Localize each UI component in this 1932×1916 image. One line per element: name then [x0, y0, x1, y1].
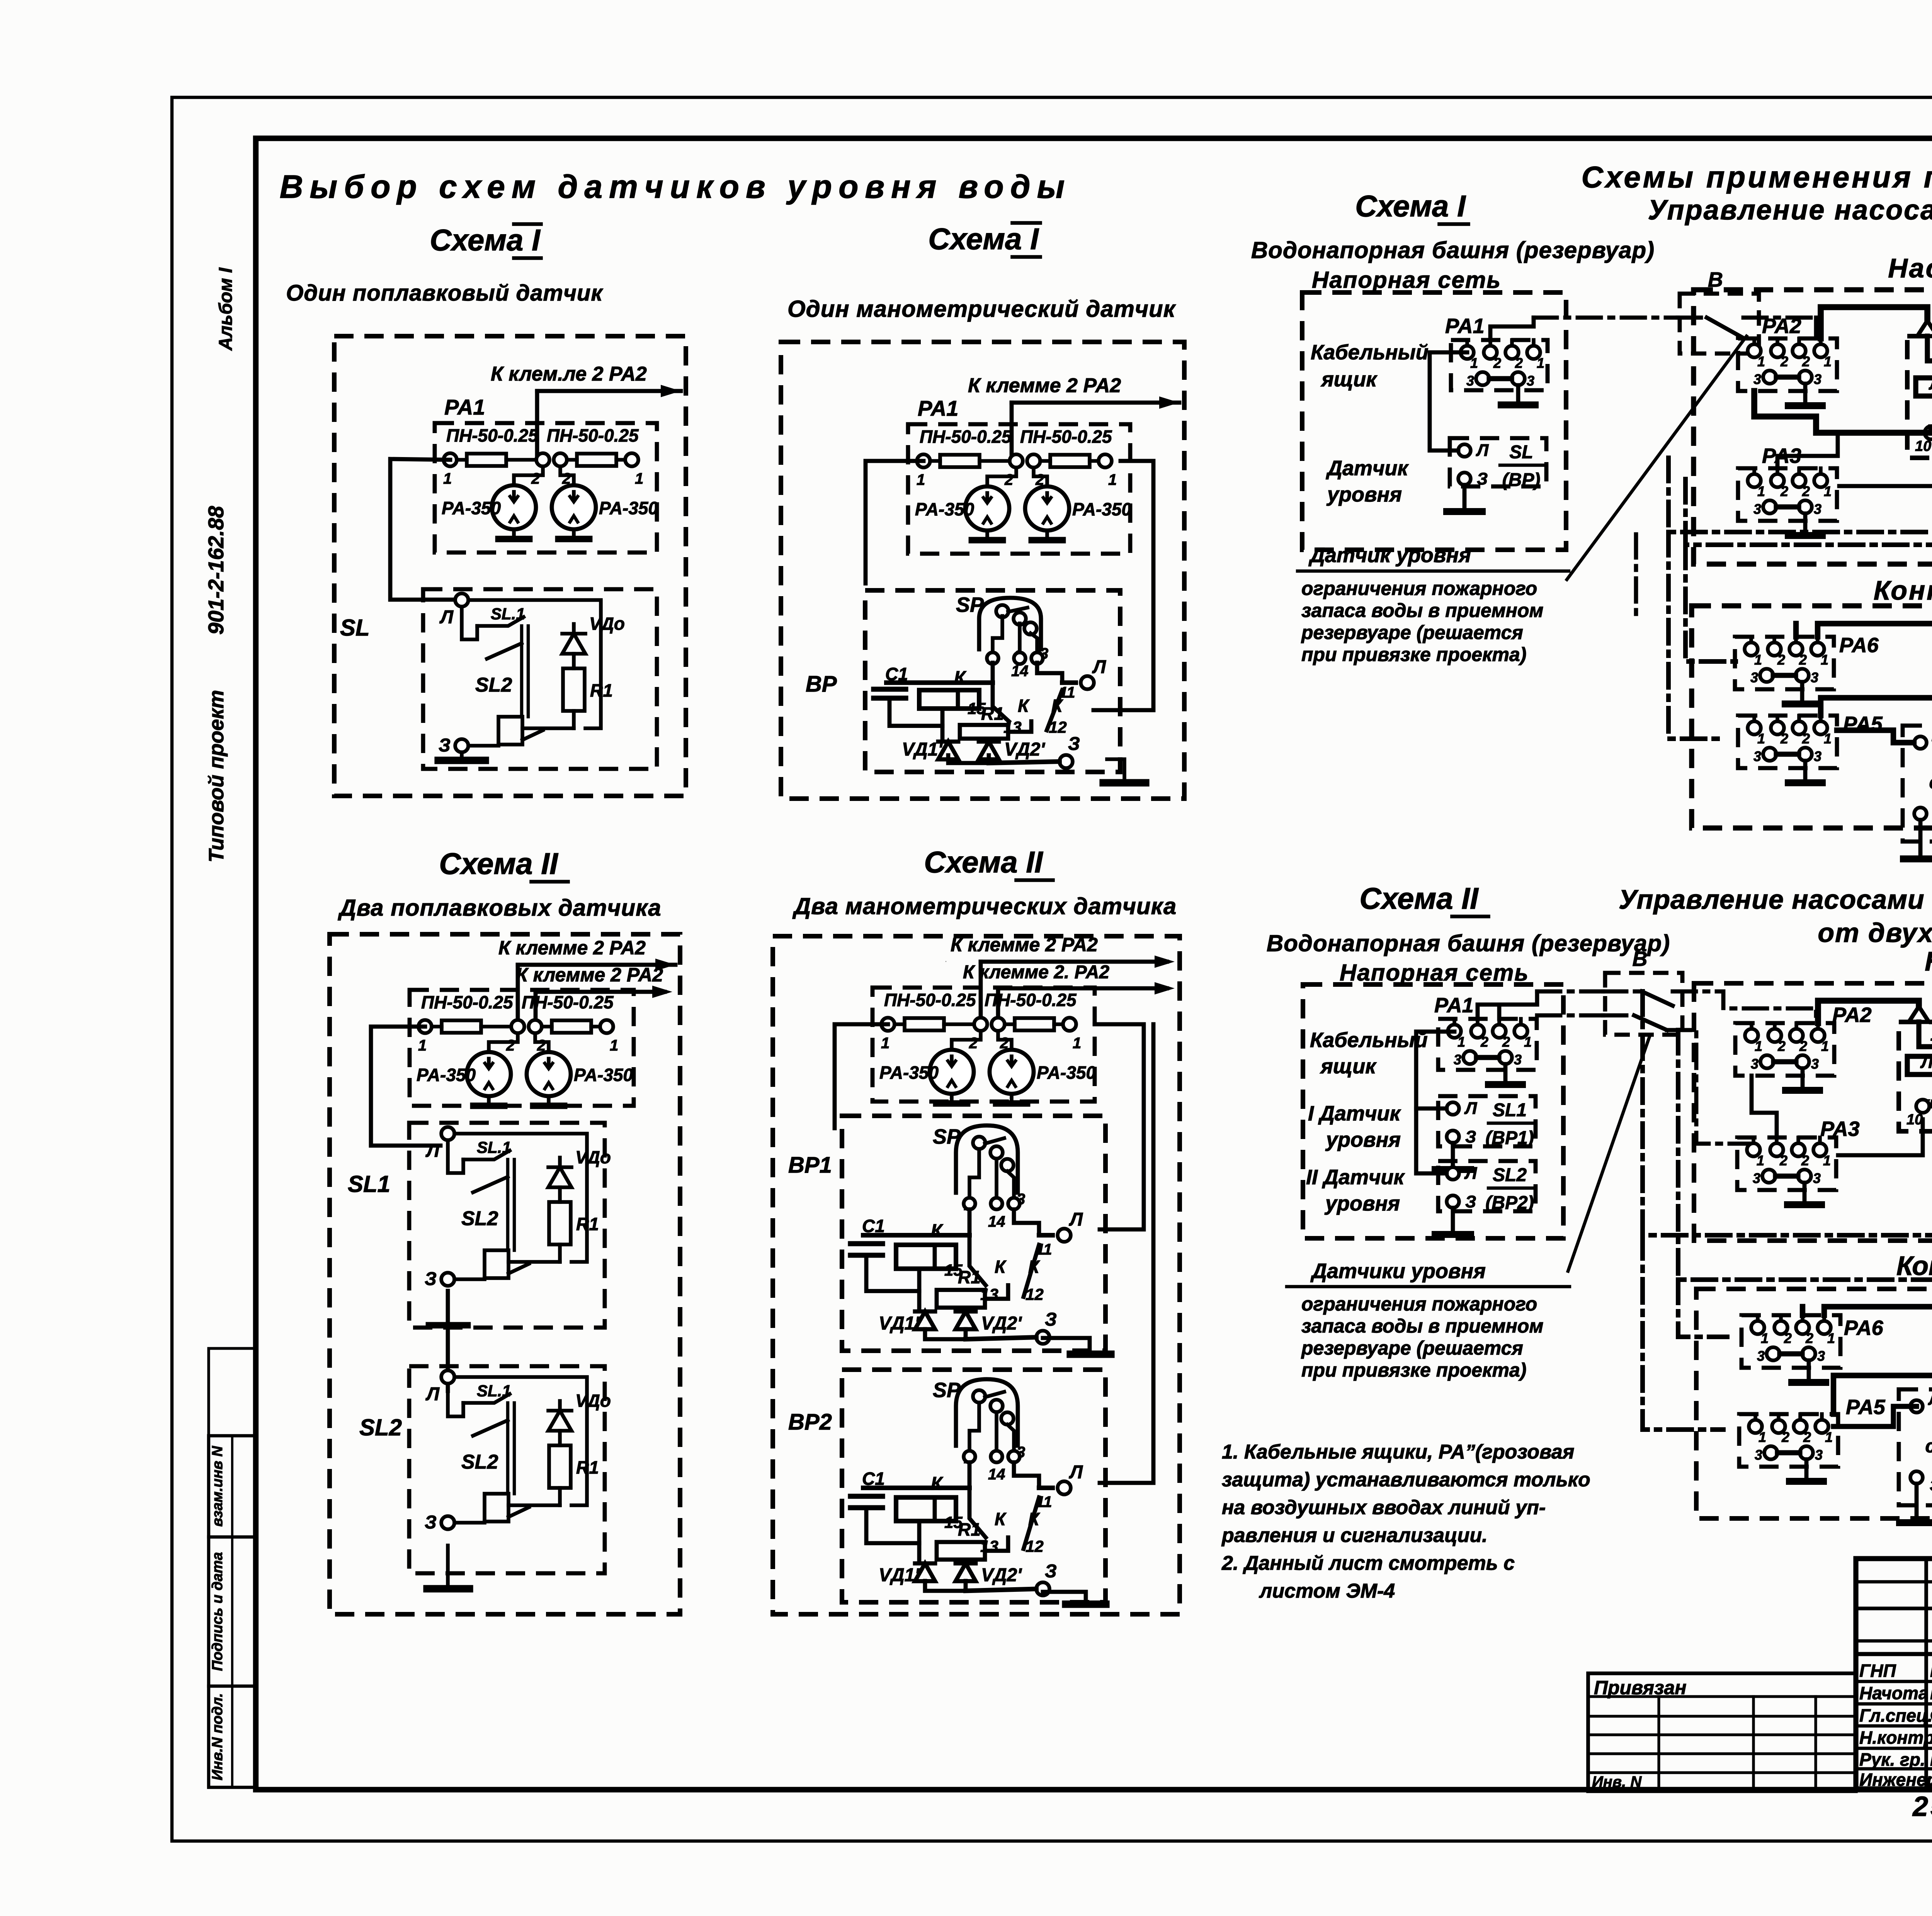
ground lead	[1918, 820, 1923, 859]
pump station dashed box I	[1694, 290, 1932, 564]
svg-text:К: К	[1028, 1257, 1040, 1277]
wire L line	[886, 680, 993, 685]
svg-text:равления и сигнализации.: равления и сигнализации.	[1221, 1524, 1488, 1547]
svg-text:РА-350: РА-350	[574, 1065, 633, 1085]
SP contact c	[1001, 1412, 1014, 1425]
svg-text:Инв.N подл.: Инв.N подл.	[209, 1693, 226, 1780]
svg-text:взам.инв N: взам.инв N	[209, 1445, 226, 1527]
svg-text:РА2: РА2	[1762, 315, 1801, 338]
wire L line	[863, 1233, 969, 1238]
svg-text:ящик: ящик	[1320, 368, 1378, 391]
switch blade middle	[487, 643, 522, 659]
float guide rods	[506, 1403, 509, 1494]
terminal 2a	[1471, 1025, 1484, 1038]
svg-text:2: 2	[1779, 1153, 1787, 1168]
terminal 2a	[1771, 721, 1784, 734]
wire L line	[863, 1486, 969, 1490]
svg-text:Альбом I: Альбом I	[216, 267, 236, 351]
svg-text:3: 3	[1750, 670, 1758, 685]
svg-text:R1: R1	[576, 1457, 599, 1477]
svg-text:К: К	[931, 1474, 944, 1494]
svg-text:К: К	[954, 668, 967, 689]
svg-text:З: З	[1045, 1561, 1057, 1581]
inner frame wire	[454, 1134, 587, 1262]
wire right bus to L	[1094, 461, 1153, 710]
terminal L	[441, 1370, 454, 1384]
svg-text:SL1: SL1	[1493, 1100, 1527, 1120]
svg-text:2: 2	[1780, 731, 1788, 746]
svg-text:при привязке проекта): при привязке проекта)	[1301, 644, 1526, 665]
terminal 1a	[1745, 1029, 1758, 1042]
wire Z link 2	[1043, 1592, 1086, 1603]
svg-text:Бурыгин: Бурыгин	[1930, 1749, 1932, 1770]
wire L to switch	[447, 1173, 448, 1273]
svg-text:VДо: VДо	[575, 1391, 611, 1411]
svg-text:З: З	[1477, 469, 1488, 488]
wire trunk YaS L	[1821, 698, 1932, 743]
ground meter right	[572, 529, 576, 539]
wire PA6 trunk to 4-YaS II	[1824, 1307, 1932, 1406]
svg-text:R1: R1	[576, 1214, 599, 1234]
resistor R1	[563, 668, 585, 711]
entry stubs	[1750, 1023, 1753, 1029]
SP pin circles	[964, 1451, 975, 1462]
terminal 1a	[1448, 1025, 1461, 1038]
manometric sensor box ВР	[865, 590, 1120, 772]
svg-text:на воздушных вводах линий уп-: на воздушных вводах линий уп-	[1222, 1496, 1546, 1519]
ground lead	[1803, 1183, 1807, 1205]
wire drop 1	[979, 962, 983, 1021]
diode VD1'	[938, 741, 958, 759]
svg-text:Начота: Начота	[1859, 1683, 1928, 1703]
terminal Z	[1910, 1471, 1923, 1484]
svg-text:1: 1	[1761, 1330, 1769, 1346]
SP contact c	[1001, 1159, 1014, 1171]
terminal Z	[441, 1516, 454, 1529]
svg-text:Рук. гр.: Рук. гр.	[1859, 1749, 1925, 1770]
svg-text:R1: R1	[958, 1519, 981, 1539]
ammeter PA-350 right	[990, 1050, 1034, 1094]
wire drop to PA2	[1814, 318, 1818, 338]
dash-dot down to kontrolny II a	[1643, 1235, 1723, 1430]
terminal 2b	[1794, 1420, 1807, 1433]
arrester box	[872, 988, 1095, 1102]
SP contact a	[996, 605, 1009, 617]
svg-text:2: 2	[1780, 483, 1788, 499]
float sensor box SL1	[409, 1123, 605, 1328]
ammeter PA-350 left	[467, 1052, 511, 1096]
terminal Z	[1036, 1582, 1049, 1595]
dash-dot napor lower to B II	[1537, 1013, 1603, 1018]
svg-text:К: К	[995, 1257, 1007, 1277]
svg-text:3: 3	[1466, 373, 1474, 389]
svg-text:2: 2	[1802, 731, 1810, 746]
wire YaU10 run	[1839, 434, 1932, 486]
diagonal callout line I	[1567, 336, 1747, 580]
level sensor box SL	[1450, 438, 1546, 486]
title block columns	[1924, 1559, 1928, 1789]
svg-text:К: К	[1028, 1509, 1040, 1529]
dash-dot trunk down left 1	[1668, 532, 1723, 739]
svg-text:Схема I: Схема I	[430, 223, 541, 257]
terminal 1b	[1814, 474, 1827, 487]
ground mid	[1070, 1350, 1111, 1358]
svg-text:Гл.спец.: Гл.спец.	[1859, 1705, 1932, 1726]
wire L1	[1927, 336, 1932, 361]
wire drop 2	[534, 992, 538, 1023]
relay K blade 15-13	[993, 683, 1009, 721]
wire PA1 to SL1 SL2	[1416, 1032, 1454, 1173]
terminal 3a	[1763, 371, 1776, 384]
svg-text:2: 2	[1801, 1153, 1809, 1168]
terminal 3b	[1799, 371, 1812, 384]
relay K blade 12	[1024, 1245, 1039, 1297]
terminal 1a	[1748, 474, 1761, 487]
switch blade	[1603, 989, 1642, 994]
fuse F2	[552, 1020, 591, 1033]
svg-text:Л: Л	[425, 1384, 440, 1404]
SP contact c	[1024, 622, 1037, 635]
svg-text:Управление насосами от одного: Управление насосами от одного датчика ур…	[1648, 195, 1932, 226]
terminal 1a	[1751, 1321, 1764, 1334]
wire 1-YaU 10 to PA3	[1777, 434, 1931, 468]
diode VDo	[562, 634, 585, 654]
ground lead	[1516, 385, 1520, 405]
svg-text:Два манометрических датчика: Два манометрических датчика	[792, 893, 1177, 919]
terminal box РА3	[1738, 468, 1837, 521]
terminal 1 right	[1099, 454, 1112, 468]
svg-text:3: 3	[1753, 1170, 1760, 1186]
ground lead	[1915, 1484, 1919, 1523]
title block main frame	[1856, 1559, 1932, 1789]
jumper 3-3	[1476, 1055, 1499, 1060]
svg-text:Два поплавковых датчика: Два поплавковых датчика	[337, 895, 661, 921]
svg-text:12: 12	[1026, 1285, 1044, 1303]
svg-text:Насосная станция: Насосная станция	[1888, 253, 1932, 283]
SP contact b	[990, 1146, 1003, 1159]
terminal 3b	[1796, 669, 1809, 682]
svg-text:С1: С1	[862, 1216, 885, 1236]
svg-text:Напорная сеть: Напорная сеть	[1312, 267, 1501, 293]
klemme arrow 2	[998, 986, 1167, 991]
svg-text:(ВР1): (ВР1)	[1485, 1128, 1534, 1148]
svg-text:2: 2	[1803, 1429, 1811, 1445]
svg-text:Инженер: Инженер	[1859, 1770, 1932, 1790]
wire right bus to BP2	[1100, 1229, 1144, 1483]
svg-text:2: 2	[531, 470, 540, 487]
svg-text:ограничения пожарного: ограничения пожарного	[1301, 1293, 1537, 1315]
svg-text:2: 2	[1805, 1330, 1813, 1346]
wire meter right	[535, 1033, 549, 1052]
svg-text:Датчики уровня: Датчики уровня	[1310, 1260, 1486, 1283]
float guide rods	[520, 626, 523, 717]
svg-text:ПН-50-0.25: ПН-50-0.25	[446, 425, 539, 445]
svg-text:1: 1	[635, 470, 643, 487]
svg-text:Схема II: Схема II	[439, 847, 558, 881]
terminal box РА1	[1451, 340, 1548, 390]
wire PA6 second riser	[1793, 624, 1799, 637]
svg-text:РА6: РА6	[1844, 1316, 1884, 1340]
jumper 3-3	[1776, 1173, 1798, 1178]
klemme arrow 1	[1002, 961, 1003, 962]
wire to PA2 with arrow	[518, 963, 675, 967]
ground meter left	[985, 530, 989, 540]
svg-text:SL2: SL2	[1493, 1165, 1527, 1185]
wire L to switch	[447, 1416, 448, 1516]
wire meter left	[514, 466, 543, 485]
svg-text:1: 1	[1757, 483, 1765, 499]
svg-text:1: 1	[1824, 483, 1832, 499]
diode VD2'	[979, 741, 999, 759]
svg-text:ПН-50-0.25: ПН-50-0.25	[884, 990, 976, 1010]
svg-text:14: 14	[1011, 663, 1029, 680]
svg-text:Н.контр: Н.контр	[1859, 1727, 1932, 1748]
svg-text:РА2: РА2	[1832, 1003, 1872, 1027]
svg-text:Кабельный: Кабельный	[1310, 1029, 1428, 1052]
dash-dot down to kontrolny II b	[1678, 1280, 1727, 1337]
resistor R1	[549, 1445, 571, 1488]
terminal box РА2	[1735, 1023, 1834, 1076]
inner frame wire	[468, 600, 601, 728]
terminal L	[1081, 676, 1094, 689]
svg-text:2: 2	[1781, 1429, 1789, 1445]
svg-text:К клемме 2. РА2: К клемме 2. РА2	[963, 962, 1109, 983]
float guide rods	[506, 1159, 509, 1250]
svg-text:К: К	[1051, 695, 1063, 716]
svg-text:сигнали-: сигнали-	[1925, 1436, 1932, 1457]
terminal 3a	[1763, 748, 1776, 761]
svg-text:3: 3	[1527, 373, 1534, 389]
control cell 1-ЯУ	[1907, 336, 1932, 458]
svg-text:Л: Л	[439, 607, 454, 627]
wire right bus 2	[1105, 1132, 1144, 1132]
svg-text:25548-01 23: 25548-01 23	[1912, 1791, 1932, 1822]
svg-text:от двух датчиков уровня.: от двух датчиков уровня.	[1818, 918, 1932, 948]
terminal 2b	[1790, 1029, 1803, 1042]
svg-text:Схема II: Схема II	[1359, 881, 1479, 915]
svg-text:Л: Л	[425, 1141, 440, 1161]
terminal box РА1	[1438, 1019, 1537, 1070]
svg-text:2: 2	[1799, 1038, 1807, 1054]
wire PA1 second entry	[1497, 1008, 1502, 1019]
svg-text:резервуаре (решается: резервуаре (решается	[1301, 1337, 1523, 1359]
jumper 3-3	[1773, 673, 1796, 678]
jumper 3-3	[1774, 1059, 1796, 1064]
svg-text:1: 1	[1757, 354, 1765, 369]
diode VDo	[548, 1411, 571, 1431]
svg-text:1: 1	[1757, 1153, 1764, 1168]
svg-text:Москалец: Москалец	[1930, 1683, 1932, 1703]
ammeter PA-350 right	[1025, 486, 1069, 530]
ground lead	[1803, 761, 1808, 783]
svg-text:3: 3	[1813, 1170, 1821, 1186]
svg-text:2: 2	[1802, 354, 1810, 369]
terminal 1a	[1749, 1420, 1762, 1433]
wire meter left	[987, 468, 1016, 486]
fuse F2	[577, 454, 616, 466]
svg-text:З: З	[1930, 1477, 1932, 1494]
terminal 2b	[1796, 1321, 1809, 1334]
wire left bus	[835, 1024, 888, 1128]
terminal Z	[455, 739, 468, 752]
dash-dot trunk vertical 1	[1668, 458, 1932, 532]
manometric sensor box ВР1	[842, 1116, 1105, 1351]
diode VD1'	[915, 1563, 935, 1581]
wire PA1 top entry	[1490, 318, 1534, 340]
dash-dot trunk vertical 2	[1685, 479, 1932, 545]
control point dashed box II	[1696, 1289, 1932, 1518]
terminal 1b	[1813, 1143, 1827, 1156]
wire C1-K	[866, 1508, 919, 1543]
switch blade middle	[473, 1177, 508, 1192]
wire PA6 trunk to 4-YaS	[1818, 624, 1932, 743]
ammeter PA-350 right	[552, 485, 596, 529]
terminal 2 left	[974, 1018, 987, 1031]
svg-text:2: 2	[1493, 355, 1501, 371]
svg-text:В: В	[1633, 947, 1648, 971]
wire arrow drop to PA1	[1010, 403, 1014, 460]
svg-text:листом ЭМ-4: листом ЭМ-4	[1259, 1580, 1395, 1602]
terminal 2 left	[511, 1020, 524, 1033]
wire C1-K	[889, 698, 942, 726]
svg-text:2: 2	[1502, 1034, 1510, 1050]
dash-dot B to pump II upper	[1673, 991, 1816, 1023]
svg-text:З: З	[1045, 1309, 1057, 1330]
fuse F1	[940, 455, 980, 467]
terminal 2 left	[1010, 454, 1023, 468]
svg-text:1: 1	[1073, 1035, 1081, 1052]
ammeter PA-350 left	[930, 1050, 974, 1094]
svg-text:К клемме 2 РА2: К клемме 2 РА2	[968, 374, 1121, 397]
svg-text:С1: С1	[862, 1469, 885, 1489]
terminal 1a	[1748, 721, 1761, 734]
SP pin wires	[969, 1403, 979, 1452]
ground lead	[1503, 1064, 1508, 1085]
svg-text:3: 3	[1757, 1348, 1765, 1364]
svg-text:Федотов: Федотов	[1930, 1705, 1932, 1726]
svg-text:ящик: ящик	[1320, 1055, 1377, 1078]
svg-text:1: 1	[1537, 355, 1544, 371]
svg-text:1. Кабельные ящики, РА”(грозов: 1. Кабельные ящики, РА”(грозовая	[1222, 1441, 1574, 1463]
svg-text:З: З	[425, 1512, 437, 1533]
svg-text:2: 2	[1802, 483, 1810, 499]
terminal 2 left	[536, 453, 549, 466]
arrester box РА1	[435, 423, 657, 553]
svg-text:14: 14	[988, 1213, 1005, 1230]
dash-dot trunk down left 2	[1685, 545, 1736, 661]
wire diodes	[925, 1581, 966, 1591]
wire L to switch	[461, 639, 462, 739]
terminal 3b	[1802, 1347, 1815, 1360]
svg-text:SL: SL	[1509, 442, 1533, 462]
svg-text:К клемме 2 РА2: К клемме 2 РА2	[951, 934, 1098, 955]
svg-text:РА-350: РА-350	[915, 499, 974, 519]
terminal 2 right	[1027, 454, 1040, 468]
svg-text:2: 2	[1799, 652, 1807, 668]
terminal 1 right	[600, 1020, 613, 1033]
terminal Z	[1447, 1131, 1459, 1143]
wire diodes	[948, 755, 989, 763]
svg-text:SL: SL	[340, 615, 370, 641]
terminal L	[441, 1127, 454, 1140]
entry stubs	[1753, 1414, 1757, 1420]
fuse F1	[442, 1020, 481, 1033]
svg-text:3: 3	[1514, 1052, 1522, 1068]
svg-text:VДо: VДо	[575, 1147, 611, 1167]
bottom contact box	[485, 1250, 509, 1278]
svg-text:З: З	[1465, 1127, 1476, 1146]
svg-text:ВР: ВР	[806, 672, 837, 697]
terminal 3b	[1798, 1170, 1811, 1183]
svg-text:1: 1	[1825, 1429, 1833, 1445]
svg-text:1: 1	[1824, 354, 1832, 369]
svg-text:1: 1	[881, 1035, 889, 1052]
wire PA6 second riser II	[1800, 1307, 1805, 1315]
svg-text:З: З	[439, 735, 451, 756]
svg-text:РА1: РА1	[1445, 315, 1485, 338]
terminal 2a	[1771, 344, 1784, 357]
svg-text:SL2: SL2	[475, 674, 512, 696]
ground bottom	[1066, 1600, 1106, 1608]
dash-dot napor to B II	[1537, 989, 1603, 994]
svg-text:1: 1	[1524, 1034, 1532, 1050]
terminal 2 right	[992, 1018, 1005, 1031]
svg-text:3: 3	[1755, 1447, 1762, 1463]
ground lead	[1807, 1360, 1811, 1382]
svg-text:ПН-50-0.25: ПН-50-0.25	[547, 425, 639, 445]
ground between	[446, 1314, 450, 1323]
svg-text:(ВР): (ВР)	[1502, 470, 1541, 490]
title block top rows	[1856, 1580, 1932, 1583]
terminal L	[1910, 1400, 1923, 1413]
inner frame wire	[454, 1377, 587, 1505]
terminal 2b	[1493, 1025, 1506, 1038]
terminal 3b	[1799, 500, 1812, 513]
control point dashed box I	[1692, 606, 1932, 828]
terminal 1 left	[418, 1020, 432, 1033]
svg-text:3: 3	[1753, 748, 1761, 764]
entry stubs	[1752, 1137, 1755, 1143]
terminal box РА5	[1738, 716, 1837, 768]
entry stubs	[1752, 716, 1756, 721]
entry stubs	[1465, 340, 1469, 346]
svg-text:1: 1	[1759, 1429, 1766, 1445]
svg-text:3: 3	[1815, 1447, 1823, 1463]
svg-text:ВР2: ВР2	[788, 1409, 832, 1435]
terminal 2 right	[554, 453, 567, 466]
svg-text:VДо: VДо	[589, 614, 625, 634]
svg-text:Схемы применения проекта автом: Схемы применения проекта автоматизации	[1582, 160, 1932, 194]
svg-text:РА-350: РА-350	[599, 498, 658, 518]
svg-text:II Датчик: II Датчик	[1306, 1166, 1405, 1189]
diode VD1'	[915, 1311, 935, 1329]
wire meter right	[998, 1031, 1012, 1050]
svg-text:VД2': VД2'	[1004, 740, 1045, 760]
terminal 2 right	[529, 1020, 542, 1033]
terminal 2a	[1768, 1029, 1781, 1042]
dash-dot line B to pump station	[1743, 316, 1816, 320]
terminal 1a	[1745, 643, 1758, 656]
level sensor box SL1	[1438, 1096, 1536, 1146]
terminal Z	[1458, 473, 1471, 485]
svg-text:3: 3	[1753, 371, 1761, 387]
svg-text:Один манометрический датчик: Один манометрический датчик	[787, 296, 1176, 322]
svg-text:1: 1	[1821, 1038, 1829, 1054]
wire meter right	[1034, 468, 1047, 486]
svg-text:Водонапорная башня (резервуар): Водонапорная башня (резервуар)	[1251, 237, 1655, 263]
svg-text:запаса воды в приемном: запаса воды в приемном	[1301, 600, 1543, 621]
wire to PA2 with arrow	[537, 389, 681, 393]
